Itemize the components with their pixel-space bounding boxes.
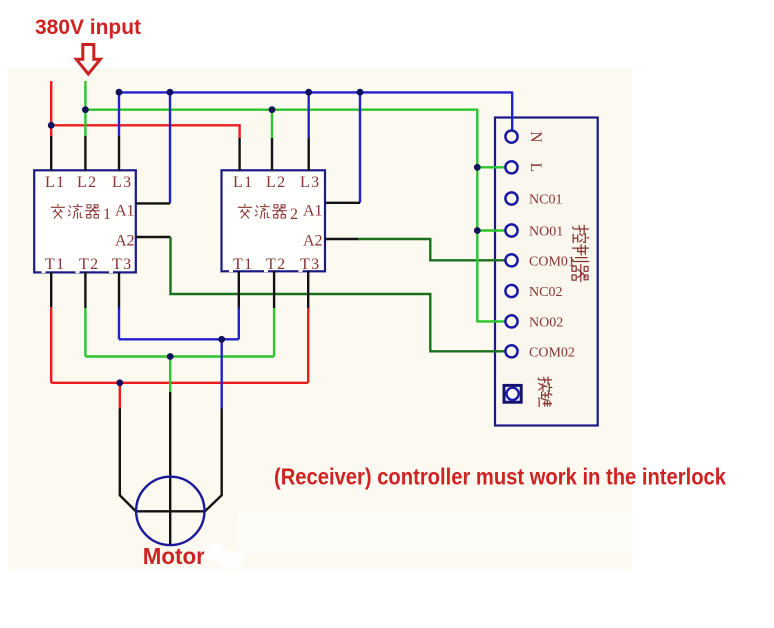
wire blue vertical L3 box2 <box>308 92 310 138</box>
wire blue T1 box2 down <box>238 308 240 340</box>
wire blue bottom horizontal <box>119 338 239 340</box>
wire black stub L3 box2 <box>308 138 310 171</box>
svg-text:A1: A1 <box>303 203 323 220</box>
wire red top horizontal <box>51 125 239 138</box>
svg-text:380V input: 380V input <box>35 16 141 39</box>
terminal NC02 <box>505 285 517 297</box>
svg-text:L1: L1 <box>45 174 65 191</box>
node green L stub <box>474 164 481 171</box>
svg-text:NC01: NC01 <box>529 193 562 208</box>
wire black stub T3 box2 <box>307 271 309 308</box>
node blue A1 box1 <box>167 89 174 96</box>
wire green motor drop <box>169 357 171 393</box>
wire green bottom horizontal <box>85 355 274 357</box>
wire red T3 box2 down <box>307 308 309 382</box>
svg-text:2: 2 <box>290 206 298 223</box>
terminal COM01 <box>505 254 517 266</box>
node green top corner <box>82 106 89 113</box>
wire green top horizontal L net <box>85 110 504 322</box>
node blue motor tap <box>218 336 225 343</box>
node blue L3 box1 <box>116 89 123 96</box>
svg-text:T1: T1 <box>45 256 65 273</box>
wire blue vertical L3 box1 <box>118 92 120 136</box>
wire black stub T3 box1 <box>118 272 120 308</box>
svg-text:NO01: NO01 <box>529 225 563 240</box>
wire black stub L1 box1 <box>50 136 52 171</box>
wire black stub L2 box2 <box>271 138 273 171</box>
wire green stub to NO01 terminal <box>477 229 504 231</box>
wire black stub A1 box1 <box>136 202 170 204</box>
svg-text:L2: L2 <box>77 174 97 191</box>
wire black stub T1 box1 <box>50 272 52 307</box>
wire green T2 box2 down <box>273 308 275 357</box>
svg-text:COM02: COM02 <box>529 345 575 360</box>
wire blue motor drop <box>220 339 222 408</box>
wire dark green A2 box1 to COM02 <box>171 237 505 351</box>
scan background <box>8 68 632 570</box>
button square <box>504 385 521 402</box>
decorative terminal ticks box1 <box>42 270 303 274</box>
label 按键 button (hand-drawn CJK rotated) <box>538 377 551 407</box>
button inner circle <box>506 388 518 400</box>
wire red input vertical L1 box1 <box>50 81 52 136</box>
svg-text:A2: A2 <box>115 233 135 250</box>
wire blue top horizontal N net <box>119 92 512 132</box>
svg-text:N: N <box>527 131 544 142</box>
wire black stub L1 box2 <box>238 138 240 171</box>
controller box U1 body <box>495 118 598 426</box>
terminal NO01 <box>505 224 517 236</box>
svg-text:NC02: NC02 <box>529 285 562 300</box>
svg-text:Motor: Motor <box>143 543 205 569</box>
terminal NO02 <box>505 315 517 327</box>
motor M1 circle <box>136 477 204 545</box>
wire red T1 box1 down <box>50 307 52 383</box>
svg-text:A2: A2 <box>303 233 323 250</box>
wire blue vertical A1 box2 <box>359 92 361 203</box>
svg-text:L: L <box>527 163 544 172</box>
wire black stub A2 box2 <box>325 238 358 240</box>
terminal COM02 <box>505 345 517 357</box>
wire green input vertical L2 box1 <box>84 81 86 136</box>
node blue L3 box2 <box>305 89 312 96</box>
svg-text:NO02: NO02 <box>529 315 563 330</box>
svg-text:L2: L2 <box>266 174 286 191</box>
node blue A1 box2 <box>357 89 364 96</box>
wire blue vertical A1 box1 <box>169 92 171 203</box>
terminal N <box>505 131 517 143</box>
wire black stub T2 box1 <box>84 272 86 308</box>
svg-text:L1: L1 <box>233 174 253 191</box>
wire black motor center <box>169 392 171 545</box>
wire black stub T2 box2 <box>273 271 275 308</box>
svg-text:T2: T2 <box>266 256 286 273</box>
svg-text:T3: T3 <box>300 256 320 273</box>
wire black stub A2 box1 <box>136 236 171 238</box>
svg-text:T3: T3 <box>112 256 132 273</box>
wire black stub T1 box2 <box>238 271 240 308</box>
wire red bottom horizontal <box>51 382 308 384</box>
wire green stub to L terminal <box>477 166 504 168</box>
wire green T2 box1 down <box>84 308 86 357</box>
svg-text:(Receiver) controller must wor: (Receiver) controller must work in the i… <box>274 464 727 490</box>
contactor box1 body <box>34 170 136 272</box>
contactor box2 body <box>222 170 326 271</box>
label 交流器2 box2 (hand-drawn CJK) <box>238 204 286 218</box>
wire black motor left <box>120 409 136 512</box>
wire black stub L2 box1 <box>84 136 86 171</box>
decorative white patch (scan watermark) <box>238 514 632 554</box>
wire black stub A1 box2 <box>325 202 360 204</box>
node green NO01 stub <box>474 227 481 234</box>
wire green vertical L2 box2 <box>271 110 273 138</box>
wire black motor cross bar <box>136 510 205 512</box>
wire red motor drop <box>119 383 121 409</box>
label 控制器 controller (hand-drawn CJK rotated) <box>572 226 589 282</box>
input arrow <box>76 45 100 75</box>
label 交流器1 box1 (hand-drawn CJK) <box>51 204 99 218</box>
node green L2 box2 <box>269 106 276 113</box>
node red top corner <box>48 122 55 129</box>
svg-text:1: 1 <box>103 206 111 223</box>
svg-text:COM01: COM01 <box>529 254 575 269</box>
terminal L <box>505 161 517 173</box>
terminal NC01 <box>505 192 517 204</box>
svg-text:T2: T2 <box>79 256 99 273</box>
wire black motor right <box>205 409 222 512</box>
wire dark green A2 box2 to COM01 <box>358 239 504 260</box>
node red motor tap <box>116 379 123 386</box>
svg-text:L3: L3 <box>112 174 132 191</box>
wire blue T3 box1 down <box>118 308 120 340</box>
svg-text:T1: T1 <box>233 256 253 273</box>
svg-text:A1: A1 <box>115 203 135 220</box>
wire black stub L3 box1 <box>118 136 120 171</box>
svg-text:L3: L3 <box>300 174 320 191</box>
node green motor tap <box>167 353 174 360</box>
